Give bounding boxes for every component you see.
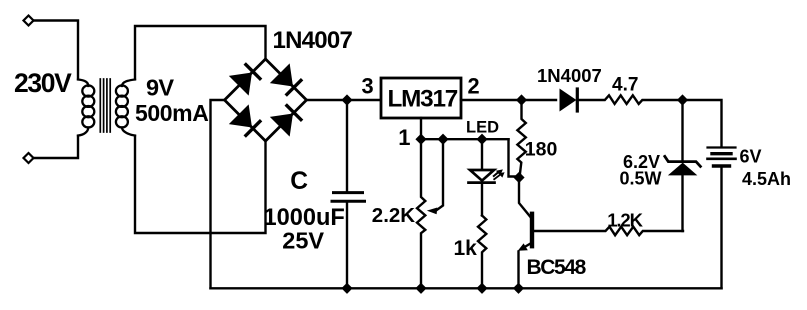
zener diode Z1 6.2V bbox=[665, 100, 701, 231]
resistor R1 4.7 bbox=[579, 95, 683, 104]
junction: cap bottom bbox=[341, 283, 352, 294]
diode D5 1N4007 series bbox=[560, 89, 577, 111]
terminal T2 (230V neutral) bbox=[24, 153, 34, 163]
wire LED branch to collector junction bbox=[509, 139, 519, 176]
diode D3 (bottom-left arm) bbox=[230, 105, 260, 135]
svg-text:2: 2 bbox=[468, 73, 480, 98]
svg-text:BC548: BC548 bbox=[527, 256, 587, 279]
resistor R4 180 bbox=[517, 100, 525, 178]
terminal T1 (230V live) bbox=[24, 16, 34, 26]
svg-text:1.2K: 1.2K bbox=[607, 209, 643, 230]
diode D1 (top-left arm) bbox=[230, 65, 260, 95]
transistor Q1 BC548 collector lead bbox=[519, 178, 531, 218]
svg-text:180: 180 bbox=[525, 138, 558, 160]
wire T1 to primary top bbox=[34, 21, 79, 80]
wire T2 to primary bottom bbox=[34, 136, 79, 158]
transformer TR1 secondary winding bbox=[116, 80, 135, 136]
junction: 1k bottom bbox=[476, 283, 487, 294]
transformer TR1 primary winding bbox=[78, 80, 94, 136]
svg-text:1k: 1k bbox=[454, 237, 478, 260]
svg-text:C: C bbox=[290, 168, 308, 195]
regulator U1 LM317 bbox=[381, 78, 461, 118]
junction: LED anode tap bbox=[476, 134, 487, 145]
svg-text:1N4007: 1N4007 bbox=[273, 27, 353, 54]
svg-text:4.5Ah: 4.5Ah bbox=[742, 169, 791, 189]
bridge rectifier outline bbox=[225, 59, 307, 141]
wire bridge DC+ to LM317 input bbox=[307, 99, 382, 101]
transistor Q1 BC548 emitter lead with arrow bbox=[518, 243, 531, 288]
svg-text:9V: 9V bbox=[146, 74, 174, 100]
transistor Q1 BC548 base bar bbox=[530, 214, 534, 246]
svg-text:1N4007: 1N4007 bbox=[537, 65, 602, 86]
junction: collector node bbox=[513, 172, 524, 183]
wire battery+ top bbox=[683, 100, 722, 147]
LED D6 bbox=[469, 139, 495, 215]
LED D6 emission arrows bbox=[494, 169, 505, 179]
resistor R5 1.2K bbox=[534, 227, 683, 236]
svg-text:4.7: 4.7 bbox=[612, 74, 638, 95]
resistor R3 1k bbox=[478, 216, 486, 289]
junction: output node bbox=[516, 94, 527, 105]
ground rail (negative bus) bbox=[211, 287, 722, 289]
potentiometer R2 wiper arrow bbox=[427, 139, 443, 214]
svg-text:230V: 230V bbox=[14, 68, 72, 98]
svg-text:1: 1 bbox=[398, 125, 410, 150]
svg-text:500mA: 500mA bbox=[135, 100, 208, 126]
svg-text:2.2K: 2.2K bbox=[372, 204, 415, 227]
junction: emitter bottom bbox=[513, 283, 524, 294]
svg-text:25V: 25V bbox=[282, 227, 324, 253]
battery BT1 6V bbox=[708, 148, 736, 289]
wire secondary bottom to bridge AC2 node bbox=[135, 136, 266, 233]
capacitor C bbox=[332, 100, 365, 288]
svg-text:6V: 6V bbox=[740, 146, 762, 166]
wire LM317 output node bbox=[461, 99, 556, 101]
junction: battery positive node bbox=[677, 94, 688, 105]
wire bridge DC- to ground rail bbox=[211, 100, 225, 288]
potentiometer R2 2.2K body bbox=[417, 139, 425, 288]
svg-text:LED: LED bbox=[466, 118, 499, 136]
svg-text:3: 3 bbox=[362, 73, 374, 98]
diode D4 (bottom-right arm) bbox=[271, 106, 301, 136]
svg-text:0.5W: 0.5W bbox=[620, 169, 662, 189]
transformer TR1 core bbox=[100, 79, 110, 132]
junction: pin1 node bbox=[415, 134, 426, 145]
wire secondary top to bridge AC1 node bbox=[135, 26, 266, 79]
wire pin1 to LED branch bbox=[421, 138, 509, 140]
svg-text:LM317: LM317 bbox=[388, 85, 458, 112]
junction: cap top node bbox=[341, 94, 352, 105]
diode D2 (top-right arm) bbox=[271, 64, 301, 94]
wire LM317 adj pin 1 bbox=[420, 118, 422, 139]
junction: pot bottom bbox=[415, 283, 426, 294]
junction: wiper tap bbox=[437, 134, 448, 145]
